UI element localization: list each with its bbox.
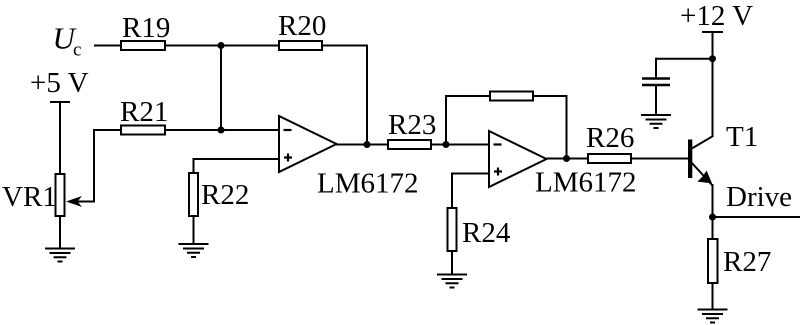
svg-text:T1: T1 <box>726 121 758 153</box>
svg-text:R20: R20 <box>278 10 326 42</box>
svg-text:VR1: VR1 <box>2 181 57 213</box>
svg-text:R26: R26 <box>586 122 634 154</box>
svg-text:LM6172: LM6172 <box>535 167 637 199</box>
svg-text:+12 V: +12 V <box>680 0 753 32</box>
svg-text:LM6172: LM6172 <box>317 168 419 200</box>
svg-text:+5 V: +5 V <box>30 67 89 99</box>
svg-text:Drive: Drive <box>726 181 792 213</box>
svg-text:R23: R23 <box>388 109 436 141</box>
svg-text:R21: R21 <box>120 96 168 128</box>
svg-text:R24: R24 <box>462 217 511 249</box>
svg-text:R22: R22 <box>201 179 249 211</box>
svg-text:R19: R19 <box>122 12 170 44</box>
svg-text:c: c <box>73 40 81 61</box>
svg-text:R27: R27 <box>723 246 771 278</box>
